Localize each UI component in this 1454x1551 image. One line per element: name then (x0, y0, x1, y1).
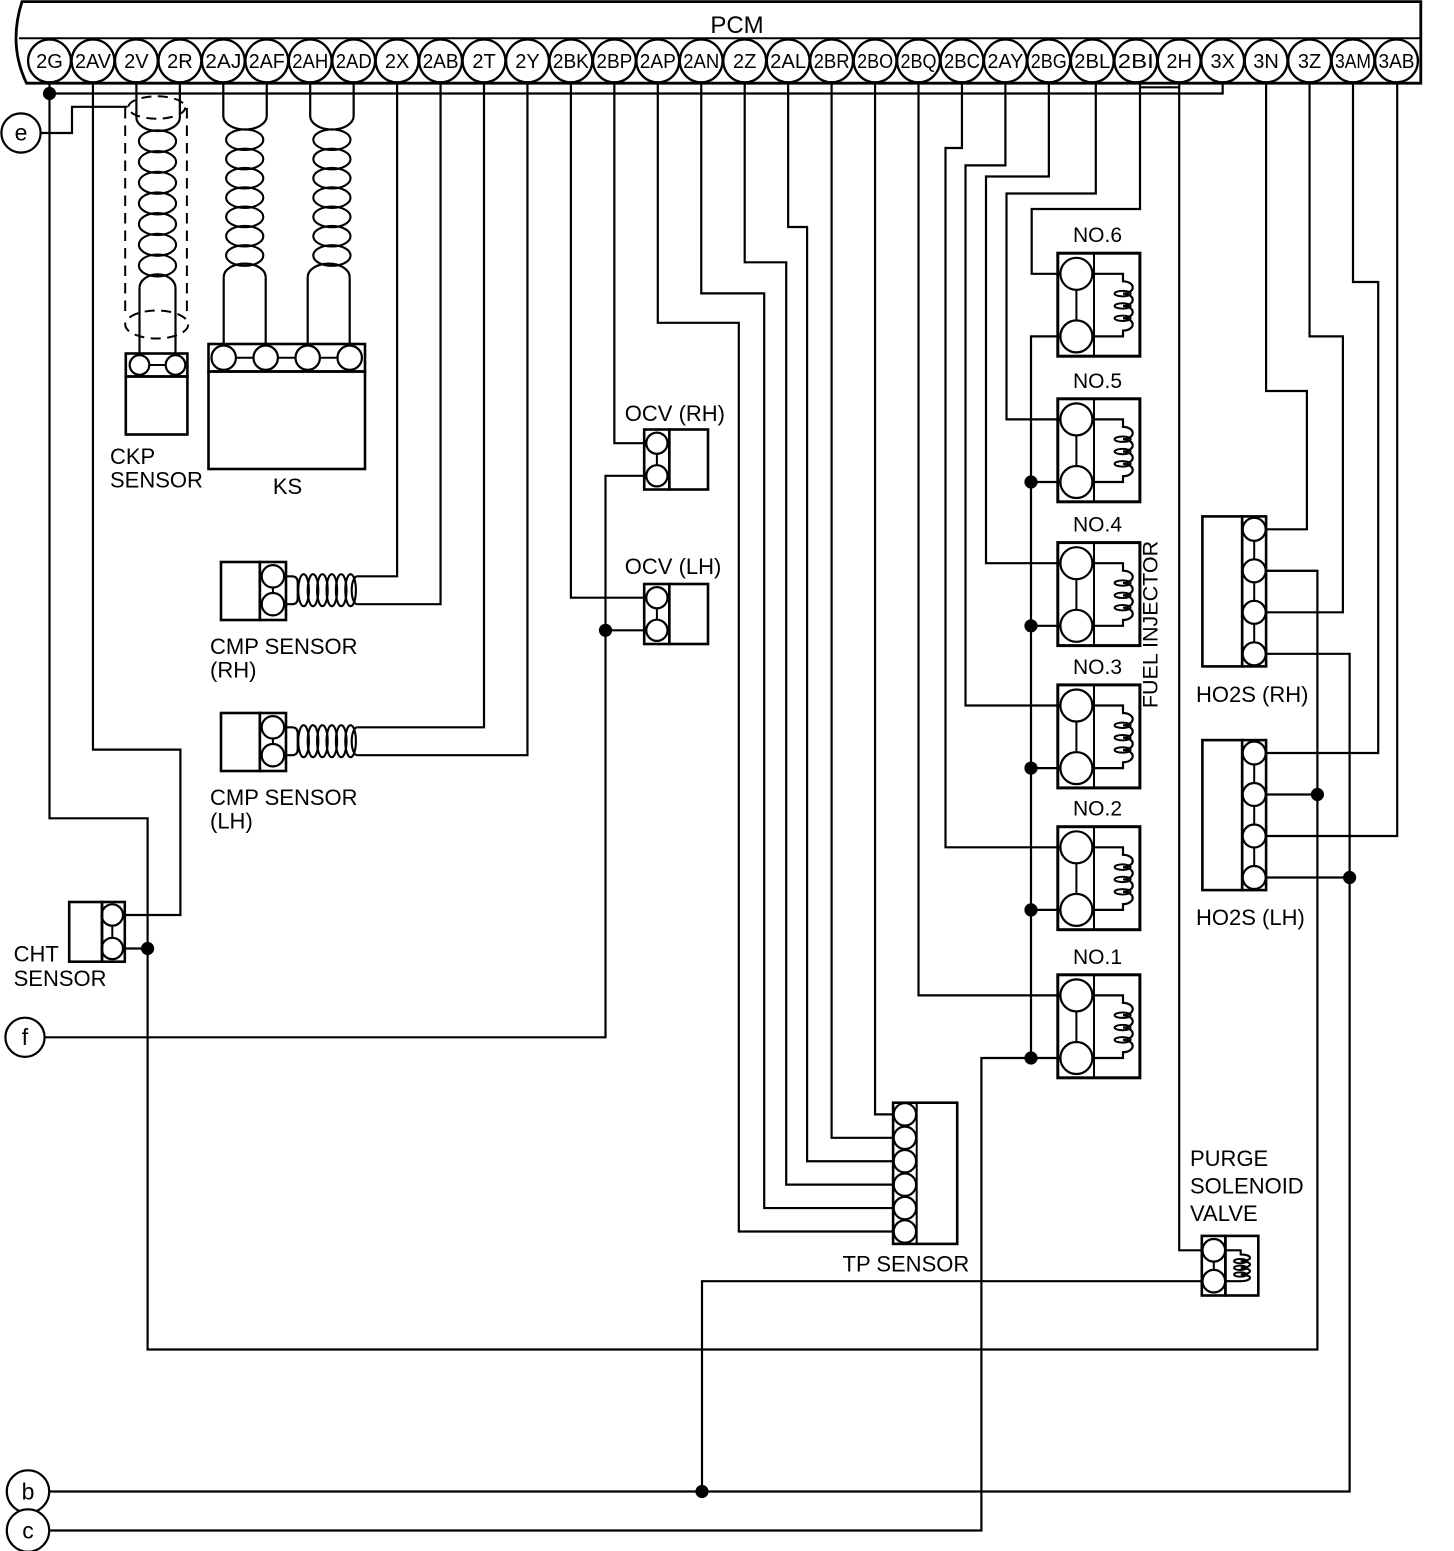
label SOLENOID (1190, 1174, 1304, 1199)
PCM pin 2G (28, 40, 71, 83)
label FUEL INJECTOR (vertical) (1139, 541, 1163, 708)
svg-text:e: e (15, 120, 28, 146)
svg-text:f: f (22, 1024, 29, 1050)
label CHT SENSOR line2 (14, 966, 107, 991)
wire 3AM to HO2S (LH) pin1 (1266, 83, 1378, 753)
svg-text:KS: KS (273, 474, 302, 499)
wire 2BP to OCV (RH) upper pin (614, 83, 644, 443)
fuel injector NO.3 (1058, 685, 1140, 788)
junction dot HO2S (LH) pin2 (1311, 788, 1324, 801)
PCM pin 2T (463, 40, 506, 83)
PCM pin 2AV (72, 40, 115, 83)
PCM pin 2AP (636, 40, 679, 83)
connector circle c (7, 1509, 49, 1551)
svg-text:2AL: 2AL (770, 51, 806, 73)
junction dot at CHT sensor ground (141, 942, 154, 955)
svg-text:2X: 2X (385, 51, 409, 73)
junction dot injector NO.4 lower pin (1024, 619, 1037, 632)
wire HO2S (RH) pin2 down (1266, 570, 1317, 572)
wire 2AJ into twisted pair (222, 83, 224, 116)
purge solenoid valve (1202, 1236, 1259, 1296)
PCM pin 2BO (854, 40, 897, 83)
wire CHT sensor lower pin to ground junction (125, 947, 148, 949)
svg-text:TP SENSOR: TP SENSOR (843, 1252, 970, 1277)
svg-text:2AV: 2AV (75, 51, 112, 73)
OCV (RH) label (625, 401, 725, 426)
wire 2BC to injector NO.2 (946, 83, 1061, 847)
HO2S (LH) (1202, 740, 1266, 890)
wire stub injector NO.3 lower pin (1031, 767, 1061, 769)
CMP sensor (LH) coil (286, 725, 356, 757)
label TP SENSOR (843, 1252, 970, 1277)
CHT sensor (69, 902, 125, 962)
CKP sensor connector (126, 354, 188, 377)
junction dot injector NO.5 lower pin (1024, 475, 1037, 488)
PCM pin 2AY (984, 40, 1027, 83)
svg-text:VALVE: VALVE (1190, 1201, 1258, 1226)
svg-text:CHT: CHT (14, 942, 59, 967)
svg-text:2BC: 2BC (944, 51, 980, 73)
wire 2AN to TP sensor pin5 (701, 83, 893, 1208)
svg-text:3AB: 3AB (1379, 51, 1415, 73)
svg-text:2V: 2V (124, 51, 149, 73)
wire 2BL to injector NO.5 (1007, 83, 1096, 419)
wire b to HO2S heater supply (49, 654, 1349, 1492)
svg-text:3N: 3N (1253, 51, 1279, 73)
svg-text:HO2S (RH): HO2S (RH) (1196, 682, 1308, 707)
wire 2Z to TP sensor pin4 (745, 83, 894, 1184)
OCV (LH) (644, 584, 708, 644)
PCM pin 2X (376, 40, 419, 83)
wire 2AD into twisted pair (353, 83, 355, 116)
svg-text:3X: 3X (1210, 51, 1234, 73)
svg-text:2AP: 2AP (640, 51, 676, 73)
label CKP SENSOR line2 (110, 468, 203, 493)
PCM pin 2BG (1027, 40, 1070, 83)
svg-text:PURGE: PURGE (1190, 1146, 1268, 1171)
fuel injector NO.1 (1058, 975, 1140, 1078)
PCM pin 2BI (1114, 40, 1157, 83)
svg-text:2Y: 2Y (515, 51, 539, 73)
label PURGE (1190, 1146, 1268, 1171)
TP sensor (893, 1103, 957, 1244)
wire stub injector NO.4 lower pin (1031, 625, 1061, 627)
svg-text:OCV (LH): OCV (LH) (625, 554, 722, 579)
junction dot HO2S (LH) pin4 (1343, 871, 1356, 884)
PCM pin 2AL (767, 40, 810, 83)
wire 2BG to injector NO.4 (986, 83, 1061, 563)
fuel injector NO.5 (1058, 399, 1140, 502)
CMP sensor (LH) label line2 (210, 809, 253, 834)
HO2S (RH) (1202, 516, 1266, 666)
svg-text:2AJ: 2AJ (205, 51, 241, 73)
wire 2R into twisted pair (179, 83, 181, 117)
PCM pin 2AD (332, 40, 375, 83)
wire stub injector NO.1 lower pin (1031, 1057, 1061, 1059)
wire 3Z to HO2S (RH) pin3 (1266, 83, 1343, 612)
svg-text:(LH): (LH) (210, 809, 253, 834)
svg-text:2G: 2G (36, 51, 63, 73)
label NO.2 (1073, 798, 1122, 821)
svg-text:NO.5: NO.5 (1073, 370, 1122, 393)
connector circle f (5, 1018, 44, 1057)
junction dot b to purge (695, 1485, 708, 1498)
CMP sensor (RH) lower wire out (357, 83, 440, 604)
PCM pin 2BC (941, 40, 984, 83)
PCM pin 3N (1245, 40, 1288, 83)
PCM pin 2V (115, 40, 158, 83)
twisted pair 2AJ/2AF to KS (223, 116, 266, 344)
CMP sensor (LH) lower wire out (357, 83, 527, 755)
wire OCV (LH) lower pin to f net (606, 629, 645, 631)
label NO.5 (1073, 370, 1122, 393)
CMP sensor (RH) label line1 (210, 634, 358, 659)
svg-text:2BP: 2BP (596, 51, 632, 73)
label NO.3 (1073, 656, 1122, 679)
svg-text:SENSOR: SENSOR (14, 966, 107, 991)
svg-text:2AN: 2AN (683, 51, 719, 73)
svg-text:2R: 2R (167, 51, 193, 73)
wire 2BQ to injector NO.1 (919, 83, 1061, 995)
wire 2AY to injector NO.3 (966, 83, 1061, 705)
svg-text:NO.1: NO.1 (1073, 946, 1122, 969)
wire 3AB to HO2S (LH) pin3 (1266, 83, 1397, 836)
PCM pin 3X (1201, 40, 1244, 83)
PCM pin 2H (1158, 40, 1201, 83)
junction dot injector NO.1 lower pin (1024, 1051, 1037, 1064)
svg-text:2BO: 2BO (857, 51, 893, 73)
KS connector strip (209, 344, 366, 372)
wire link 2BI to 2H (1140, 86, 1179, 88)
svg-text:CKP: CKP (110, 444, 155, 469)
svg-text:(RH): (RH) (210, 658, 256, 683)
CKP sensor body (126, 377, 188, 435)
HO2S (LH) label (1196, 905, 1305, 930)
svg-text:2BG: 2BG (1031, 51, 1067, 73)
CMP sensor (RH) (221, 562, 286, 620)
svg-text:SENSOR: SENSOR (110, 468, 203, 493)
svg-text:NO.6: NO.6 (1073, 224, 1122, 247)
label CHT SENSOR line1 (14, 942, 59, 967)
svg-text:2AD: 2AD (336, 51, 372, 73)
label NO.1 (1073, 946, 1122, 969)
wire purge solenoid lower pin to b net (702, 1281, 1203, 1491)
PCM pin 2R (159, 40, 202, 83)
svg-text:2BL: 2BL (1074, 51, 1110, 73)
svg-text:FUEL INJECTOR: FUEL INJECTOR (1139, 541, 1163, 708)
svg-text:CMP SENSOR: CMP SENSOR (210, 785, 358, 810)
wire branch 2G junction to pin 3X (50, 83, 1223, 93)
svg-text:2H: 2H (1166, 51, 1192, 73)
PCM pin 3AB (1375, 40, 1418, 83)
PCM pin 3AM (1332, 40, 1375, 83)
fuel injector NO.2 (1058, 827, 1140, 930)
wire 2BO to TP sensor pin1 (875, 83, 894, 1114)
wire injector common return to c (50, 336, 1061, 1530)
CMP sensor (RH) upper wire out (357, 83, 397, 576)
junction dot injector NO.3 lower pin (1024, 762, 1037, 775)
PCM pin 2AJ (202, 40, 245, 83)
twisted pair 2V/2R to CKP sensor (136, 118, 179, 354)
junction dot at 2G branch (43, 87, 56, 100)
wire 2BR to TP sensor pin2 (832, 83, 894, 1138)
HO2S (RH) label (1196, 682, 1308, 707)
wire stub injector NO.2 lower pin (1031, 909, 1061, 911)
svg-text:2AB: 2AB (423, 51, 459, 73)
PCM module box outline (16, 2, 1421, 84)
connector circle e (1, 113, 40, 152)
label VALVE (1190, 1201, 1258, 1226)
wire 2G to junction, long branch to 3X, down to CHT and HO2S ground (50, 83, 1318, 1349)
wire 2BI to injector NO.6 (1032, 83, 1140, 274)
PCM pin 2BP (593, 40, 636, 83)
svg-text:CMP SENSOR: CMP SENSOR (210, 634, 358, 659)
svg-text:2AH: 2AH (292, 51, 328, 73)
wire OCV (RH) lower pin down to f net (45, 476, 645, 1038)
svg-text:OCV (RH): OCV (RH) (625, 401, 725, 426)
wire 2AV to CHT sensor upper pin (93, 83, 180, 915)
CKP cable shield (dashed) (125, 96, 188, 338)
PCM pin 3Z (1288, 40, 1331, 83)
PCM label (710, 12, 763, 39)
connector circle b (7, 1470, 49, 1512)
wire 3N to HO2S (RH) pin1 (1266, 83, 1307, 529)
svg-text:b: b (22, 1479, 35, 1505)
OCV (LH) label (625, 554, 722, 579)
svg-text:c: c (22, 1518, 34, 1544)
svg-text:2BK: 2BK (553, 51, 590, 73)
wire stub injector NO.5 lower pin (1031, 481, 1061, 483)
svg-text:2BI: 2BI (1118, 51, 1154, 73)
CMP sensor (LH) upper wire out (357, 83, 484, 727)
junction dot OCV (LH) lower pin (599, 624, 612, 637)
wire 2V into twisted pair (135, 83, 137, 117)
svg-text:2AY: 2AY (987, 51, 1023, 73)
twisted pair 2AH/2AD to KS (308, 116, 354, 344)
CMP sensor (LH) label line1 (210, 785, 358, 810)
PCM pin 2AF (245, 40, 288, 83)
CMP sensor (LH) coil exit (352, 727, 358, 755)
OCV (RH) (644, 430, 708, 490)
wire 2AL to TP sensor pin3 (788, 83, 893, 1161)
svg-text:NO.3: NO.3 (1073, 656, 1122, 679)
wire 2BK to OCV (LH) upper pin (571, 83, 644, 598)
CMP sensor (RH) coil (286, 574, 356, 606)
CMP sensor (RH) coil exit (352, 576, 358, 604)
CMP sensor (RH) label line2 (210, 658, 256, 683)
PCM pin 2AB (419, 40, 462, 83)
svg-text:NO.2: NO.2 (1073, 798, 1122, 821)
label KS (273, 474, 302, 499)
KS body (209, 372, 366, 470)
wire 2AP to TP sensor pin6 (658, 83, 894, 1231)
junction dot injector NO.2 lower pin (1024, 903, 1037, 916)
wire 2H to purge solenoid upper pin (1179, 83, 1202, 1250)
svg-text:2BR: 2BR (814, 51, 850, 73)
label CKP SENSOR line1 (110, 444, 155, 469)
svg-text:2Z: 2Z (733, 51, 756, 73)
wire 2AF into twisted pair (266, 83, 268, 116)
svg-text:PCM: PCM (710, 12, 763, 39)
wire HO2S (LH) pin4 stub (1266, 876, 1350, 878)
PCM pin 2Y (506, 40, 549, 83)
svg-text:2AF: 2AF (249, 51, 285, 73)
PCM pin 2Z (723, 40, 766, 83)
PCM pin 2BK (550, 40, 593, 83)
svg-text:3AM: 3AM (1335, 51, 1371, 73)
fuel injector NO.4 (1058, 543, 1140, 646)
svg-text:SOLENOID: SOLENOID (1190, 1174, 1304, 1199)
label NO.4 (1073, 514, 1122, 537)
svg-text:3Z: 3Z (1298, 51, 1321, 73)
svg-text:2T: 2T (472, 51, 495, 73)
CMP sensor (LH) (221, 713, 286, 771)
PCM pin 2BR (810, 40, 853, 83)
svg-text:2BQ: 2BQ (901, 51, 937, 73)
wire 2AH into twisted pair (309, 83, 311, 116)
svg-text:HO2S (LH): HO2S (LH) (1196, 905, 1305, 930)
PCM pin 2BQ (897, 40, 940, 83)
fuel injector NO.6 (1058, 253, 1140, 356)
wire HO2S (LH) pin2 to ground line (1266, 793, 1317, 795)
PCM pin 2AH (289, 40, 332, 83)
wire e to CKP cable shield (41, 107, 128, 133)
svg-text:NO.4: NO.4 (1073, 514, 1122, 537)
PCM pin 2BL (1071, 40, 1114, 83)
label NO.6 (1073, 224, 1122, 247)
PCM pin 2AN (680, 40, 723, 83)
